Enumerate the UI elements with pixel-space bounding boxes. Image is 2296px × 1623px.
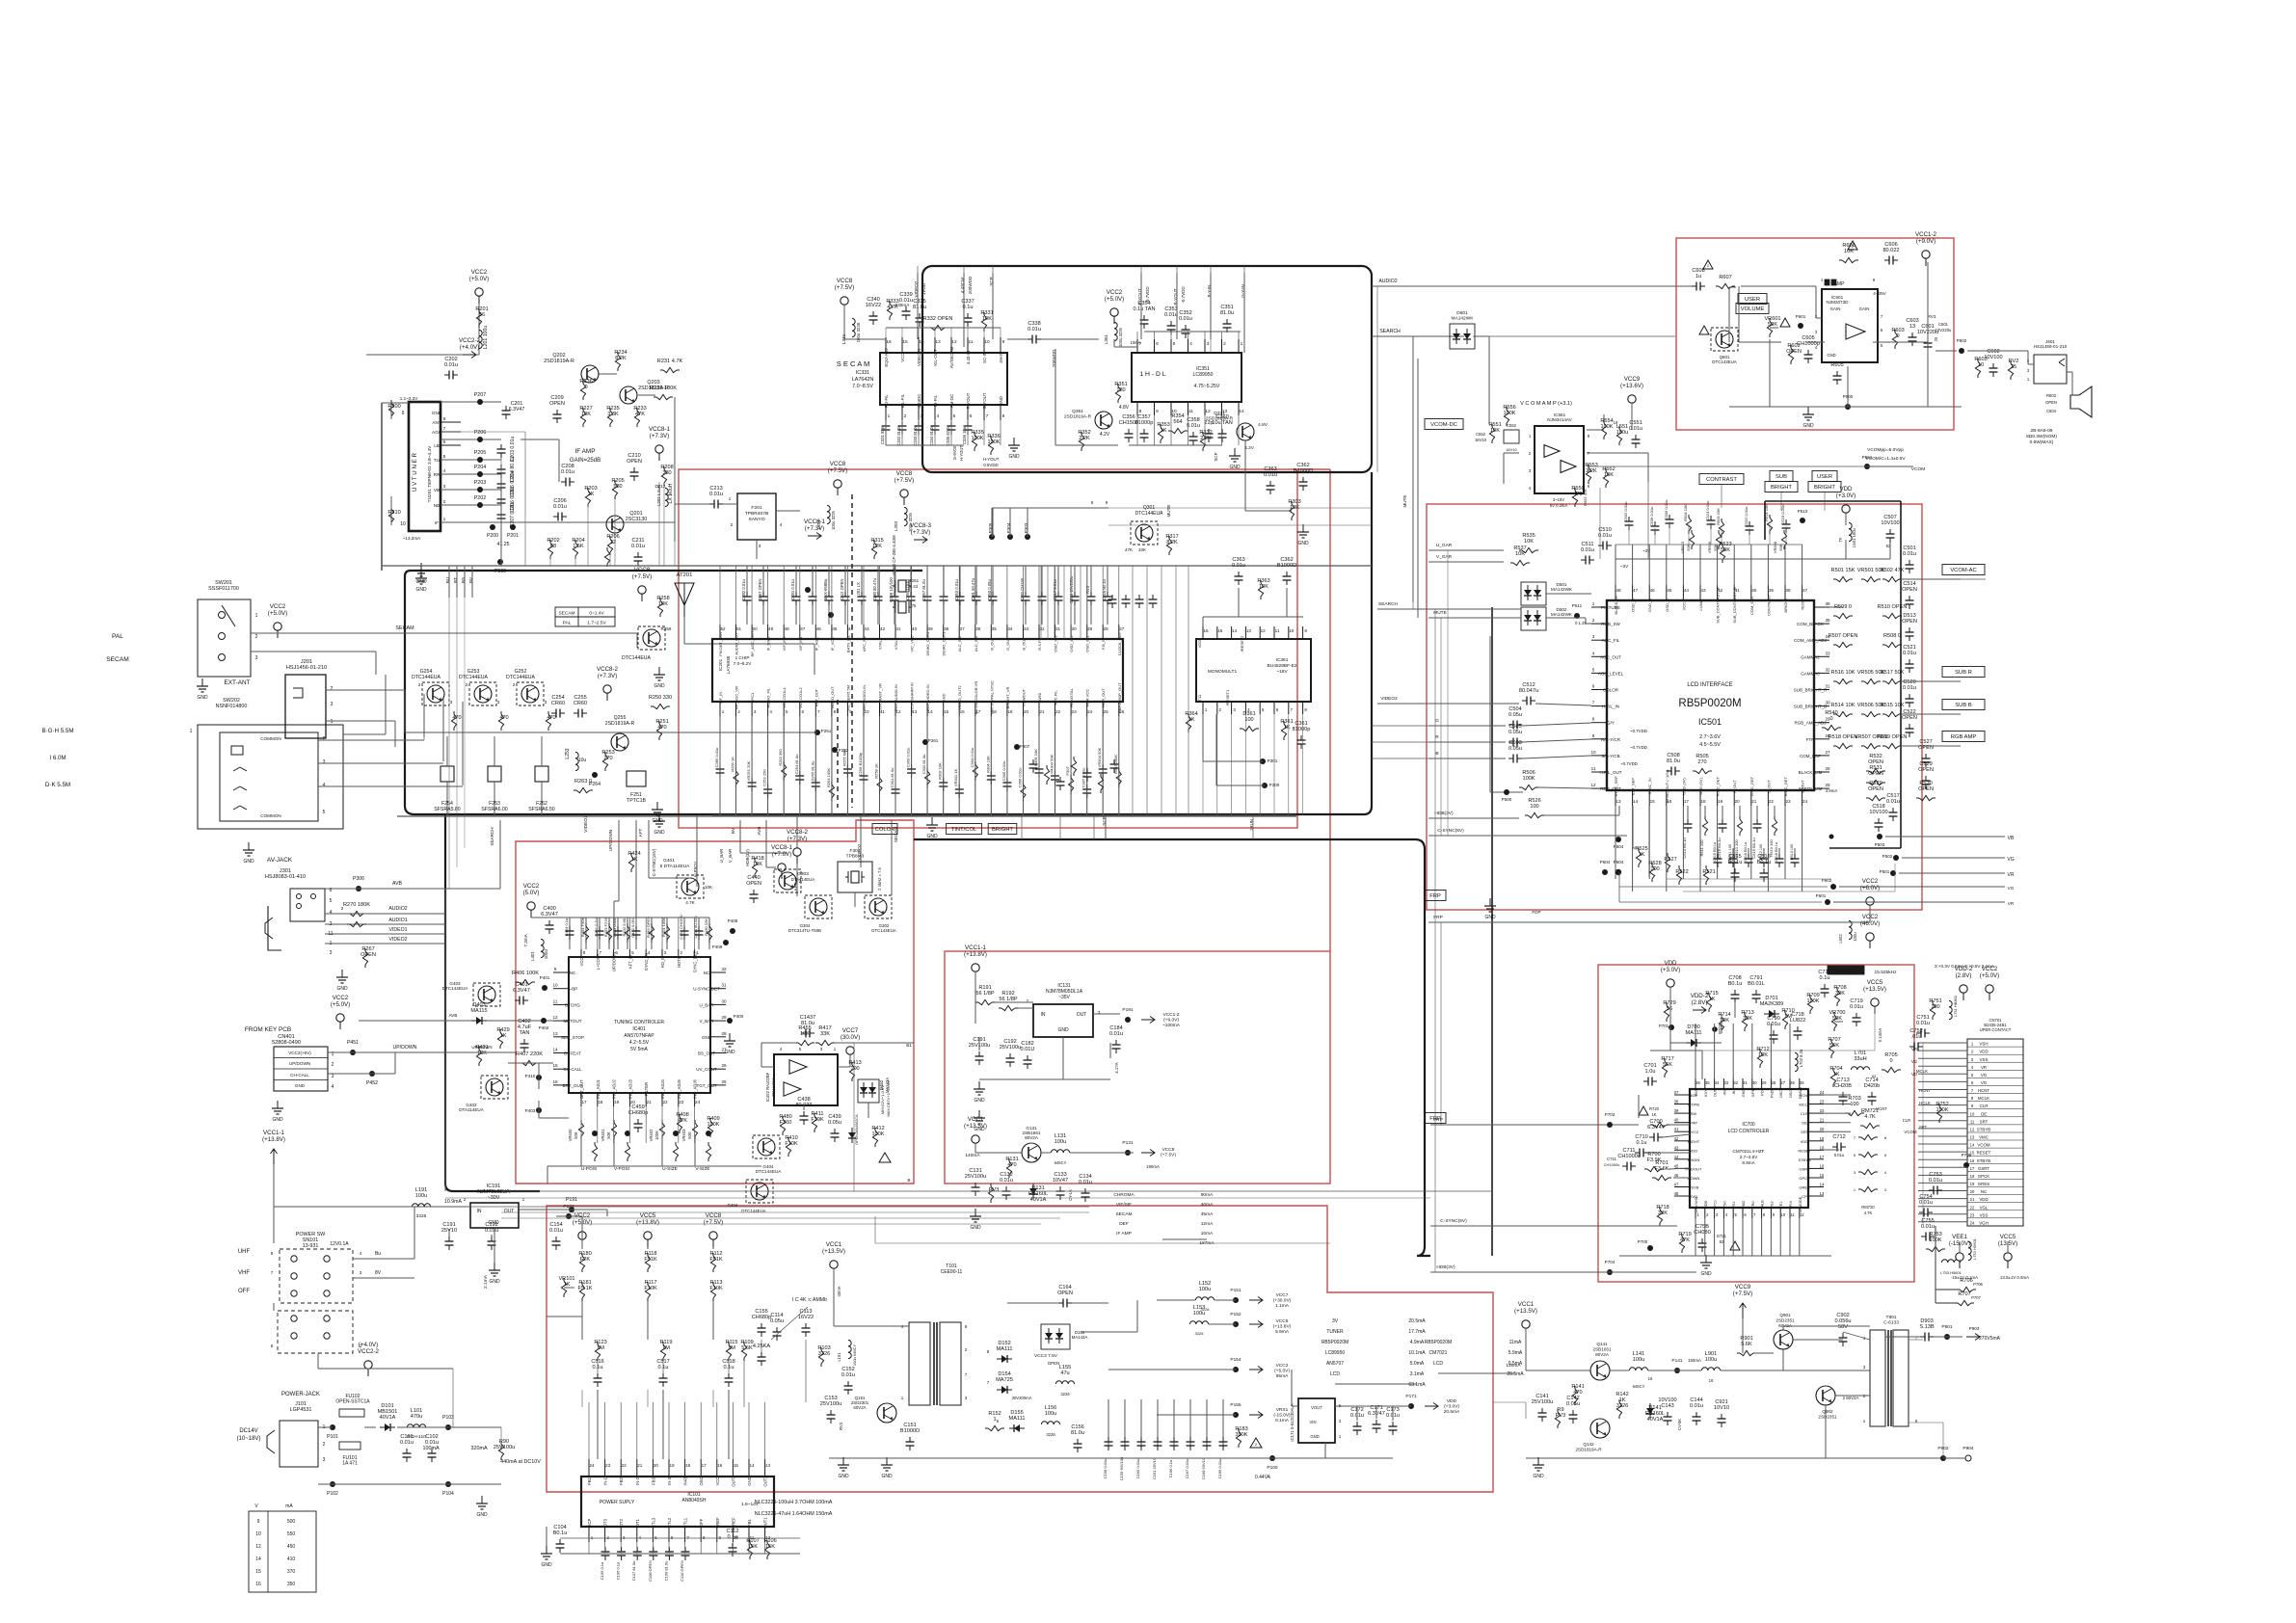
ground ic351b (1229, 448, 1241, 470)
pullout P204 (474, 465, 516, 496)
svg-text:IN: IN (477, 1209, 482, 1214)
svg-text:C335 82.0u: C335 82.0u (946, 425, 950, 446)
svg-text:CP: CP (1802, 1194, 1807, 1199)
potentiometer VR400 (568, 1120, 598, 1166)
svg-text:F10K: F10K (785, 1141, 798, 1147)
svg-text:VCC9: VCC9 (1735, 1284, 1751, 1290)
svg-text:8: 8 (271, 1251, 274, 1256)
svg-text:C301 81.0u: C301 81.0u (890, 768, 894, 788)
svg-text:(+7.5V): (+7.5V) (632, 573, 652, 580)
wire mute down (1402, 359, 1418, 618)
transistor G303 DTA114EUA (774, 869, 814, 892)
svg-text:24: 24 (695, 1100, 701, 1104)
svg-text:100K: 100K (654, 1131, 659, 1140)
resistor R553 (1585, 463, 1597, 484)
svg-text:USER: USER (1745, 297, 1760, 303)
svg-text:10K: 10K (1515, 551, 1525, 557)
svg-text:OSC0: OSC0 (1789, 1088, 1793, 1098)
ground tuner (415, 563, 427, 585)
svg-text:DEMO_OUT1: DEMO_OUT1 (942, 631, 947, 656)
resistor R409 (707, 1116, 719, 1137)
svg-text:0.01U: 0.01U (1021, 1047, 1035, 1052)
svg-text:VMC: VMC (1979, 1135, 1989, 1140)
svg-text:VR301 1K: VR301 1K (953, 769, 958, 787)
junction P705 (1962, 1153, 1972, 1168)
resistor R364 (1185, 711, 1197, 732)
svg-text:CLOCK_OUT: CLOCK_OUT (1117, 631, 1122, 655)
label IF AMP (570, 448, 601, 464)
svg-text:2B-8A8-09: 2B-8A8-09 (2031, 428, 2053, 434)
junction P251 (814, 729, 832, 735)
svg-text:370: 370 (287, 1569, 296, 1575)
net label VIDEO2b (857, 815, 862, 867)
dashed net separator 2 (837, 700, 839, 808)
label VCC5 out (1273, 1318, 1292, 1335)
resistor R706 (1957, 1278, 1976, 1292)
coil L141 (1629, 1351, 1653, 1389)
wire secam top bus (844, 305, 1001, 339)
svg-text:4.9mA: 4.9mA (1410, 1340, 1425, 1345)
capacitor C358 (1187, 417, 1200, 445)
red outline regulator board (945, 951, 1330, 1184)
resistor network right of IC501 (1829, 545, 1985, 749)
wire C-SYNC ic700 (1430, 1218, 1677, 1226)
speaker SP601 (2045, 386, 2092, 417)
capacitor C604 (1984, 349, 2002, 377)
svg-text:OPEN: OPEN (1902, 619, 1917, 625)
svg-text:VCOM-DC: VCOM-DC (1430, 422, 1457, 428)
svg-text:TPBR407B: TPBR407B (745, 511, 768, 517)
svg-text:23: 23 (1970, 1212, 1975, 1217)
resistor R235 (606, 406, 619, 427)
boxed label SUB BRIGHT (1765, 471, 1798, 492)
svg-text:UP/DOWN: UP/DOWN (608, 830, 613, 851)
wire ic700 top nets (1650, 987, 1735, 1079)
svg-text:COM_OUT: COM_OUT (1749, 595, 1754, 615)
svg-text:330: 330 (662, 470, 671, 476)
svg-text:F2K: F2K (580, 1257, 591, 1263)
svg-text:40: 40 (912, 626, 918, 631)
svg-text:1: 1 (190, 729, 193, 734)
svg-text:7: 7 (817, 709, 820, 714)
resistor R210 (387, 506, 400, 525)
resistor R429 (496, 1027, 509, 1049)
svg-text:COMMON: COMMON (260, 813, 280, 818)
svg-text:10.9mA: 10.9mA (444, 1199, 462, 1205)
vcc VDD-2 cn (1955, 966, 1973, 1000)
wires tuner pins (441, 402, 501, 505)
svg-text:AT201: AT201 (677, 572, 693, 578)
resistor R408b (676, 1112, 688, 1133)
wire rail y1252 (445, 1206, 1089, 1208)
svg-text:13: 13 (765, 1463, 771, 1468)
svg-text:GND: GND (1008, 454, 1020, 460)
table volts (249, 1503, 316, 1592)
resistor R480 (779, 1114, 791, 1135)
capacitor C790 (1767, 1016, 1780, 1044)
capacitor C340 (866, 297, 881, 325)
svg-text:LCD CONTROLER: LCD CONTROLER (1728, 1129, 1770, 1134)
svg-text:DTC144EUA: DTC144EUA (459, 675, 489, 680)
svg-text:15: 15 (255, 1569, 261, 1575)
svg-text:4.7K: 4.7K (1864, 1211, 1873, 1215)
capacitor C210 (627, 453, 642, 481)
svg-text:24: 24 (1970, 1220, 1975, 1225)
svg-text:VIDEO1: VIDEO1 (388, 927, 407, 933)
svg-text:10V10: 10V10 (1714, 1405, 1729, 1411)
svg-text:100u: 100u (415, 1193, 427, 1199)
svg-text:C316 80.1u: C316 80.1u (1102, 579, 1107, 600)
svg-text:C160 0.01u: C160 0.01u (1135, 1459, 1140, 1479)
capacitor C518b (1869, 804, 1887, 832)
svg-text:0.13mA: 0.13mA (1878, 1028, 1882, 1043)
svg-text:+IN: +IN (1722, 1090, 1726, 1096)
svg-text:(+4.0V): (+4.0V) (359, 1342, 378, 1348)
svg-text:NSNF014800: NSNF014800 (216, 704, 248, 709)
svg-text:P301: P301 (1268, 758, 1278, 763)
svg-text:VDD: VDD (1979, 1050, 1988, 1054)
svg-text:1K: 1K (1284, 725, 1291, 731)
svg-text:VCL.CO1L2: VCL.CO1L2 (798, 686, 803, 707)
svg-text:VG: VG (1981, 1073, 1988, 1078)
svg-text:0.01u: 0.01u (444, 362, 458, 368)
svg-text:4.43-IN: 4.43-IN (966, 351, 971, 364)
svg-text:GND: GND (243, 859, 254, 865)
svg-text:100K: 100K (1600, 424, 1613, 430)
svg-text:C252 250: C252 250 (762, 769, 767, 786)
svg-text:VREF: VREF (715, 1517, 720, 1529)
capacitor C113 (798, 1309, 814, 1337)
label SCP v (1214, 452, 1218, 461)
svg-text:31: 31 (1743, 1080, 1748, 1085)
svg-text:HSJ1456-01-210: HSJ1456-01-210 (286, 665, 327, 671)
boxed label USER BRIGHT (1808, 471, 1841, 492)
svg-text:10: 10 (255, 1531, 261, 1537)
resistor R250 330 (649, 695, 672, 709)
wire right rail 2 (0, 0, 1, 1)
svg-text:0.01u: 0.01u (1164, 312, 1178, 318)
svg-text:30V200mA: 30V200mA (1012, 1396, 1032, 1400)
junctions P305 P304 P303 (988, 522, 1030, 540)
svg-text:GND: GND (881, 1474, 893, 1479)
svg-text:SCP: SCP (1214, 452, 1218, 461)
svg-text:24: 24 (1087, 709, 1093, 714)
svg-text:NJM2073D: NJM2073D (1827, 300, 1850, 305)
svg-text:DT2: DT2 (619, 1518, 624, 1527)
svg-text:0.1u TAN: 0.1u TAN (1133, 306, 1155, 312)
svg-text:15: 15 (552, 1063, 558, 1068)
svg-text:35: 35 (1705, 1080, 1710, 1085)
wire q131 (975, 1143, 1134, 1153)
label B1 B2 (906, 1043, 912, 1183)
resistor network RM721 (1860, 1108, 1928, 1130)
wire vcc7 long (853, 1043, 855, 1191)
svg-text:VDD: VDD (1801, 1139, 1809, 1144)
svg-text:P205: P205 (474, 450, 487, 456)
resistor R332b (1199, 430, 1212, 451)
svg-text:646CY: 646CY (1055, 1160, 1067, 1165)
svg-text:P900: P900 (494, 569, 506, 574)
svg-text:7: 7 (965, 1372, 968, 1377)
ground key (272, 1101, 283, 1123)
svg-text:10: 10 (1590, 750, 1596, 755)
labels band freqs (41, 728, 73, 788)
svg-text:0.05u: 0.05u (828, 1120, 841, 1126)
svg-text:81.0u: 81.0u (913, 305, 926, 310)
capacitor C751 (1916, 1015, 1930, 1038)
svg-text:10V47: 10V47 (1053, 1178, 1068, 1184)
resistor R208b (660, 465, 673, 486)
svg-text:10: 10 (552, 983, 558, 988)
capacitor C603 (1906, 318, 1918, 346)
vcc VCC1-1 boxC (964, 945, 987, 979)
svg-text:HDB(3V): HDB(3V) (745, 849, 750, 866)
svg-text:MA142WK: MA142WK (1551, 612, 1573, 617)
svg-text:11: 11 (1970, 1119, 1975, 1124)
svg-text:BRIGHT: BRIGHT (1814, 485, 1835, 491)
svg-text:CTL3: CTL3 (651, 1517, 655, 1528)
svg-text:D267 OPEN: D267 OPEN (758, 578, 762, 600)
svg-text:C522 0.01u: C522 0.01u (1744, 507, 1749, 527)
capacitor C337 (961, 299, 974, 327)
potentiometer VR402 (649, 1120, 679, 1166)
label VCC3 7.5V (1034, 1353, 1059, 1366)
svg-text:L752 H5601: L752 H5601 (1972, 1237, 1977, 1260)
transistor G403 DTC144EUA (442, 981, 500, 1006)
svg-text:4: 4 (1189, 341, 1192, 347)
resistor R752 (1936, 1102, 1948, 1123)
label FDP (1532, 910, 1540, 915)
svg-text:C106 0.1u: C106 0.1u (616, 1562, 621, 1580)
vcc VCC1 q141 (1514, 1301, 1537, 1336)
svg-text:TE1: TE1 (1779, 1202, 1783, 1209)
wire main lower bus (382, 565, 1372, 567)
svg-text:4.8V: 4.8V (1119, 405, 1130, 411)
svg-text:10: 10 (1289, 628, 1295, 633)
svg-text:7: 7 (443, 426, 446, 432)
svg-text:564: 564 (1173, 419, 1182, 425)
svg-text:IND_ADJ3: IND_ADJ3 (627, 1078, 632, 1098)
svg-text:C161 25V10: C161 25V10 (1152, 1457, 1157, 1479)
svg-text:10: 10 (1978, 362, 1984, 368)
svg-text:1M: 1M (662, 1345, 670, 1351)
svg-text:20: 20 (654, 1463, 659, 1468)
resistor R180 (578, 1251, 591, 1272)
resistor R200 (387, 400, 400, 419)
wire vcc2-2 col (476, 300, 479, 355)
capacitor C719 (1850, 998, 1863, 1026)
svg-text:VCC5: VCC5 (2000, 1234, 2016, 1240)
svg-text:FIL_REF/5.5M: FIL_REF/5.5M (845, 685, 850, 710)
svg-text:8.2K: 8.2K (1166, 540, 1178, 545)
svg-text:GND: GND (654, 683, 665, 689)
svg-text:TU: TU (434, 458, 440, 463)
svg-text:1K: 1K (1709, 997, 1716, 1002)
svg-text:HDN/XTAL: HDN/XTAL (1069, 687, 1074, 706)
wire long bus A (501, 1190, 1492, 1192)
svg-text:VG: VG (1911, 1059, 1918, 1064)
resistor R523 (1719, 542, 1731, 563)
svg-text:VCC2: VCC2 (1276, 1363, 1289, 1369)
resistor R112 (709, 1251, 723, 1272)
junction P451 (347, 1040, 359, 1055)
svg-text:39: 39 (928, 626, 934, 631)
svg-text:MA725: MA725 (996, 1377, 1013, 1383)
wire ic351 top (1114, 332, 1241, 347)
svg-text:18: 18 (685, 1463, 691, 1468)
svg-text:P201: P201 (507, 533, 519, 539)
svg-text:FDP: FDP (1532, 910, 1540, 915)
svg-text:R_OUT: R_OUT (989, 637, 994, 651)
svg-text:20.5mA: 20.5mA (1408, 1318, 1426, 1324)
svg-text:10mA: 10mA (1201, 1231, 1214, 1237)
svg-text:0.01u: 0.01u (1079, 1180, 1092, 1185)
resistor R407 (516, 1051, 543, 1066)
svg-text:AV-JACK: AV-JACK (267, 857, 293, 864)
transistor G304 DTC314TU (788, 895, 832, 933)
svg-text:25V100u: 25V100u (1000, 1045, 1021, 1051)
wire VB (1885, 836, 2015, 841)
svg-text:4.2~5.5V: 4.2~5.5V (629, 1040, 650, 1046)
svg-text:T11: T11 (1197, 694, 1202, 701)
wire AUDIO2 jack (325, 906, 445, 914)
svg-text:NB: NB (434, 503, 440, 508)
net label SCP2 (1102, 815, 1107, 838)
vcc VDD ic501 (1836, 486, 1855, 520)
resistor R709 (1806, 993, 1819, 1014)
svg-text:KIL.LO/COLOR.VR: KIL.LO/COLOR.VR (974, 681, 978, 715)
svg-text:10: 10 (400, 521, 406, 527)
svg-text:VCC2: VCC2 (1862, 914, 1879, 920)
svg-text:36: 36 (1825, 601, 1830, 606)
capacitor C605 (1797, 335, 1820, 363)
svg-text:(10~18V): (10~18V) (237, 1436, 261, 1442)
coil L151 (837, 1340, 857, 1366)
svg-text:V_BAR: V_BAR (700, 1019, 715, 1024)
svg-text:C518 B0.1u: C518 B0.1u (1775, 842, 1778, 862)
svg-text:R210: R210 (387, 510, 400, 516)
vcc VCC8-1 bottom (771, 844, 802, 885)
capacitor C529 (1918, 761, 1934, 789)
label VCOMpp (1865, 447, 1906, 462)
svg-text:F201: F201 (751, 505, 761, 511)
svg-text:R259: R259 (661, 626, 672, 631)
svg-text:81000p: 81000p (1135, 420, 1154, 426)
svg-text:2: 2 (1223, 341, 1226, 347)
IC351 LC89950 1H delay line (1132, 339, 1244, 415)
svg-text:MA142WK: MA142WK (1551, 587, 1573, 592)
svg-text:F51K: F51K (644, 1257, 657, 1263)
svg-text:D255 81.0u: D255 81.0u (810, 761, 814, 782)
svg-text:15: 15 (1820, 1173, 1825, 1178)
dashed net separator 1 (851, 494, 853, 808)
svg-text:1u: 1u (1695, 274, 1701, 279)
svg-text:3: 3 (759, 544, 761, 549)
coil L156 (1041, 1405, 1059, 1437)
svg-text:IC201: IC201 (718, 658, 723, 671)
capacitor C701 (1643, 1063, 1657, 1086)
svg-text:AGC_OUT: AGC_OUT (1600, 654, 1621, 659)
svg-text:33: 33 (1724, 1080, 1729, 1085)
svg-text:CTL2: CTL2 (667, 1517, 672, 1528)
capacitor C511 (1581, 542, 1629, 569)
svg-text:C712: C712 (1832, 1134, 1845, 1140)
svg-text:56 1/8P: 56 1/8P (999, 997, 1018, 1002)
svg-text:0.01u: 0.01u (1903, 551, 1916, 557)
svg-text:VCC1: VCC1 (1518, 1301, 1535, 1308)
capacitor C254 (551, 695, 565, 718)
svg-text:(+9.0V): (+9.0V) (1163, 1018, 1179, 1024)
svg-text:38: 38 (944, 626, 949, 631)
label 10.9mA (444, 1199, 462, 1205)
capacitor C255 (574, 695, 587, 718)
ground t101 (881, 1457, 893, 1479)
svg-text:MAX-958Bu: MAX-958Bu (823, 578, 828, 600)
svg-text:(+5.0V): (+5.0V) (331, 1001, 350, 1008)
svg-text:42: 42 (1674, 1136, 1679, 1141)
svg-text:33uH: 33uH (1854, 1056, 1866, 1062)
resistor R607 (1716, 275, 1735, 289)
svg-text:PO: PO (1761, 1090, 1765, 1096)
svg-text:5V 5mA: 5V 5mA (630, 1047, 648, 1052)
wire ic191 (436, 1207, 607, 1285)
coil L201 (479, 326, 489, 350)
resistor R250 470 (451, 711, 461, 731)
svg-text:16V22: 16V22 (798, 1315, 814, 1320)
svg-text:10.1mA: 10.1mA (1408, 1350, 1426, 1356)
svg-text:EXT_VIDEO.IN: EXT_VIDEO.IN (925, 684, 930, 711)
svg-text:U_GAR: U_GAR (1436, 543, 1453, 548)
svg-text:SYNC_OUT (~10V): SYNC_OUT (~10V) (1665, 769, 1669, 804)
svg-text:(2.8V): (2.8V) (1956, 972, 1972, 979)
svg-text:HDB: HDB (1704, 1201, 1708, 1209)
svg-text:VR: VR (2008, 901, 2015, 906)
svg-text:CH680p: CH680p (628, 1110, 649, 1116)
svg-text:81.0u: 81.0u (1667, 758, 1680, 764)
labels under ic331 (952, 445, 1000, 467)
svg-text:(+7.3V): (+7.3V) (805, 525, 824, 532)
svg-text:IND_ADJ5: IND_ADJ5 (677, 1078, 681, 1098)
svg-text:4: 4 (443, 468, 446, 474)
svg-text:81000p: 81000p (1293, 727, 1311, 732)
svg-text:C515 B0.1u: C515 B0.1u (1713, 842, 1717, 862)
resistor R251 470 (655, 719, 668, 740)
transistor Q131 2SB1661 (1022, 1126, 1041, 1162)
svg-text:36: 36 (1695, 1080, 1700, 1085)
transistor G252 DTC144EUA (506, 669, 547, 705)
svg-text:47: 47 (1674, 1183, 1679, 1187)
svg-text:C516 B0.1u: C516 B0.1u (1744, 842, 1748, 862)
junction P155 (1230, 1402, 1263, 1419)
svg-text:0.01u: 0.01u (400, 1440, 414, 1446)
svg-text:48: 48 (1615, 588, 1621, 593)
svg-text:VRX1: VRX1 (1276, 1407, 1289, 1413)
regulator IC171 (1290, 1398, 1342, 1443)
wires IC331 bottom verticals (886, 420, 1001, 445)
svg-text:U-SIZE: U-SIZE (662, 1166, 678, 1172)
svg-text:CLR: CLR (1903, 1118, 1910, 1123)
svg-text:RB5P0020M: RB5P0020M (1678, 698, 1741, 709)
svg-text:P410: P410 (525, 1074, 536, 1078)
svg-text:VG: VG (1981, 1080, 1988, 1085)
svg-text:S.13B: S.13B (1919, 1324, 1935, 1330)
svg-text:GND: GND (838, 1474, 849, 1479)
svg-text:P203: P203 (474, 480, 487, 486)
svg-text:TINT.VR/PAL.NTSC: TINT.VR/PAL.NTSC (989, 680, 994, 715)
vcc VCC8-2 filters (597, 666, 619, 701)
red outline LCD-interface board (1427, 504, 1922, 910)
junction P902 P904 (1937, 1446, 1974, 1461)
